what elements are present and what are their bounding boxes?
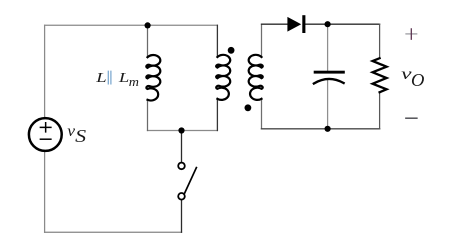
label minus output polarity [406,117,417,119]
resistor R load [373,58,387,92]
node junction bottom rail to switch [178,127,184,133]
wire resistor upper lead [379,24,381,58]
wire capacitor lower lead [327,80,329,129]
wire capacitor upper lead [327,24,329,71]
transformer primary winding [216,55,230,100]
polarity dot secondary [245,104,252,111]
svg-text:S: S [75,126,86,146]
voltage source vS [29,118,62,151]
wire diode cathode to output top rail [305,23,380,25]
node junction output top rail to capacitor [325,21,331,27]
wire top rail primary side [45,24,218,26]
svg-text:v: v [67,123,75,140]
node junction top rail to Lm [145,22,151,28]
wire left vertical upper (top rail to source) [44,25,46,118]
transformer secondary winding [249,55,263,100]
diode D [287,15,305,33]
label plus output polarity [406,29,417,39]
wire switch stem upper [181,131,183,163]
wire secondary top jog to diode anode [262,23,288,25]
node junction output bottom rail to capacitor [325,126,331,132]
label L parallel Lm [95,70,139,89]
wire switch stem lower [181,200,183,232]
wire primary loop bottom rail [148,130,218,132]
wire secondary winding lower lead [261,99,263,129]
wire secondary bottom rail [262,128,380,130]
wire Lm branch lower lead [147,100,149,131]
wire Lm branch upper lead [147,25,149,57]
svg-text:L: L [95,70,107,85]
polarity dot primary [228,47,235,54]
svg-text:m: m [129,74,139,89]
svg-text:O: O [411,70,425,90]
label vS [67,123,86,146]
label vO [401,66,424,90]
wire resistor lower lead [379,92,381,129]
capacitor C [314,71,345,84]
wire primary winding lower lead [216,99,218,131]
wire left vertical lower (source to bottom rail) [44,151,46,232]
switch SW [178,163,196,200]
wire primary winding upper lead [216,25,218,57]
wire secondary winding upper lead [261,24,263,57]
wire bottom rail [45,231,182,233]
inductor L parallel Lm [146,55,160,100]
